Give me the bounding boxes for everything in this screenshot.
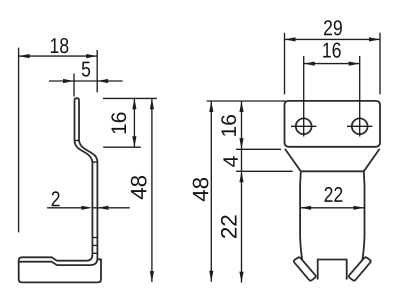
left view: top extension line 16/48 bbox=[103, 97, 157, 99]
left view: dim 2 right tail bbox=[97, 207, 129, 209]
left view: dim 5 right tail bbox=[97, 80, 122, 82]
left view: bend tick 2 lower strip bbox=[92, 244, 97, 246]
right view: arrow 48 bottom bbox=[209, 271, 213, 282]
right view: text 29 bbox=[324, 20, 342, 35]
right view: taper fold line bbox=[301, 170, 364, 172]
left view: far-left extension line bbox=[18, 48, 20, 233]
left view: dim line 48 bbox=[151, 98, 153, 282]
left view: arrow 18 right bbox=[86, 54, 97, 58]
right view: arrow 16v bottom bbox=[239, 138, 243, 149]
right view: arrow 29 right bbox=[369, 37, 380, 41]
right view: hole left vertical centerline bbox=[303, 56, 305, 137]
left view: right extension line for 18 and 5 bbox=[96, 50, 98, 92]
right view: arrow 4 bottom bbox=[239, 171, 243, 182]
left view: dim 5 line between extensions bbox=[74, 80, 97, 82]
right view: ext line taper bottom bbox=[236, 170, 293, 172]
right view: hole right bbox=[352, 118, 368, 134]
right view: arrow 16 left bbox=[304, 62, 315, 66]
left view: arrow 5 right bbox=[97, 79, 108, 83]
right view: notch left edge bbox=[317, 260, 319, 279]
left view: arrow 48 bottom bbox=[150, 271, 154, 282]
right view: arrow 16v top bbox=[239, 101, 243, 112]
left view: arrow 2 right bbox=[97, 206, 108, 210]
right view: ext line head bottom bbox=[236, 148, 281, 150]
left view: arrow 48 top bbox=[150, 98, 154, 109]
right view: dim line 48 bbox=[210, 101, 212, 282]
left view: bottom extension line 16 bbox=[103, 146, 141, 148]
right view: arrow 16 right bbox=[349, 62, 360, 66]
left view: dim 5 left tail bbox=[49, 80, 74, 82]
right view: text 4 rotated bbox=[223, 156, 237, 167]
right view: head plate outline bbox=[285, 101, 381, 147]
right view: hole right horizontal centerline bbox=[347, 125, 372, 127]
right view: notch top line bbox=[318, 259, 347, 261]
right view: prong right bbox=[349, 257, 371, 280]
right view: hole left horizontal centerline bbox=[291, 125, 316, 127]
right view: taper left edge bbox=[285, 149, 301, 171]
left view: left extension line for 5 bbox=[73, 74, 75, 97]
right view: arrow 22v bottom bbox=[239, 272, 243, 283]
right view: ext line 29 right bbox=[379, 33, 381, 95]
right view: prong left bbox=[294, 257, 316, 280]
left view: text 5 bbox=[82, 62, 90, 77]
right view: body left edge bbox=[300, 171, 302, 259]
right view: hole left bbox=[296, 118, 312, 134]
left view: bend tick jog bottom bbox=[92, 161, 97, 163]
left view: text 16 rotated bbox=[111, 113, 126, 134]
left view: bracket profile outer outline bbox=[19, 98, 101, 282]
right view: arrow 22 left bbox=[300, 206, 311, 210]
right view: arrow 22 right bbox=[354, 206, 365, 210]
left view: arrow 16 top bbox=[132, 98, 136, 109]
left view: dim 2 left tail bbox=[47, 207, 81, 209]
left view: bend tick 1 lower strip bbox=[92, 237, 97, 239]
left view: arrow 18 left bbox=[19, 54, 30, 58]
right view: text 22 rotated bbox=[221, 215, 237, 238]
right view: body right edge bbox=[362, 171, 364, 259]
right view: top extension line 48/16 bbox=[207, 100, 286, 102]
right view: taper right edge bbox=[364, 149, 379, 171]
left view: text 48 rotated bbox=[131, 176, 147, 199]
left view: bend tick jog top bbox=[75, 140, 80, 142]
right view: text 16 rotated bbox=[221, 115, 236, 136]
left view: arrow 5 left bbox=[63, 79, 74, 83]
left view: bracket inner line B bbox=[19, 258, 98, 265]
left view: arrow 16 bottom bbox=[132, 136, 136, 147]
right view: dim line 29 bbox=[285, 38, 381, 40]
right view: hole right vertical centerline bbox=[359, 56, 361, 137]
right view: arrow 29 left bbox=[285, 37, 296, 41]
left view: dim line 18 bbox=[19, 55, 98, 57]
right view: text 16 top bbox=[323, 42, 340, 57]
right view: notch right edge bbox=[346, 260, 348, 279]
right view: ext line 29 left bbox=[284, 33, 286, 95]
right view: arrow 48 top bbox=[209, 101, 213, 112]
left view: bend tick 3 lower strip bbox=[92, 252, 97, 254]
left view: text 18 bbox=[51, 38, 69, 53]
right view: dim line 16 top bbox=[304, 63, 360, 65]
right view: dim line 22 body bbox=[300, 207, 364, 209]
left view: dim 2 line between edges bbox=[92, 207, 97, 209]
left view: text 2 bbox=[52, 191, 60, 206]
right view: dim line 16/4/22 vertical bbox=[241, 101, 243, 283]
right view: text 22 body bbox=[324, 187, 342, 202]
left view: dim line 16 bbox=[133, 98, 135, 147]
right view: text 48 rotated bbox=[193, 178, 209, 201]
left view: arrow 2 left bbox=[81, 206, 92, 210]
